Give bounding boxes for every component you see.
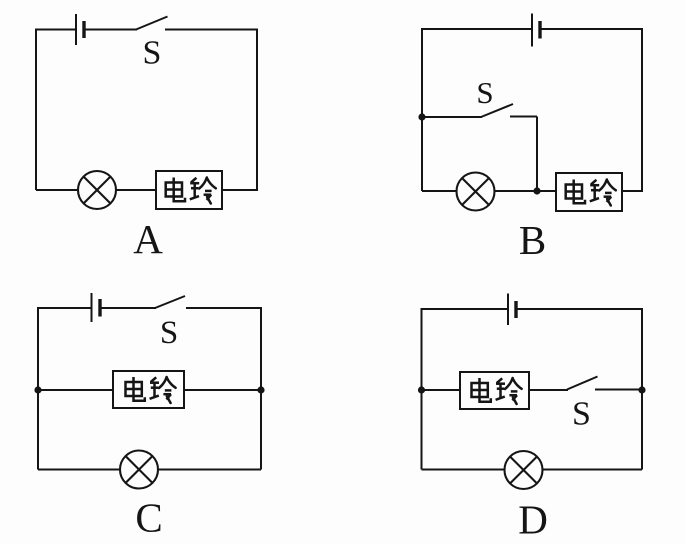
battery (circuit A) long plate <box>75 14 77 45</box>
wire: C middle branch right segment <box>184 389 261 391</box>
wire: A switch contact to top-right corner <box>165 29 257 31</box>
wire: B bottom-left to lamp <box>422 190 457 192</box>
wire: D left vertical <box>421 309 423 470</box>
wire: A lamp to bell <box>117 189 157 191</box>
electric bell box (circuit B) <box>556 173 622 211</box>
wire: D middle branch to bell <box>422 389 461 391</box>
wire: C battery to switch <box>101 307 156 309</box>
wire: D bottom-left to lamp <box>422 469 505 471</box>
wire: A bell to bottom-right corner <box>222 189 258 191</box>
wire: A top-left to battery <box>35 29 75 31</box>
node dot on B left vertical <box>418 113 425 120</box>
battery (circuit D) short plate <box>514 301 517 318</box>
wire: C lamp to bottom-right corner <box>158 469 261 471</box>
wire: B switch branch vertical down <box>536 117 538 192</box>
svg-text:B: B <box>519 217 546 263</box>
node dot on B bottom wire <box>533 187 540 194</box>
node dot on D left vertical (middle branch) <box>418 386 425 393</box>
wire: A bottom-left to lamp <box>36 189 78 191</box>
wire: B battery to top-right corner <box>541 28 642 30</box>
battery (circuit D) long plate <box>507 294 509 326</box>
wire: C middle branch left segment <box>38 389 113 391</box>
node dot on C right vertical (middle branch) <box>257 386 264 393</box>
node dot on C left vertical (middle branch) <box>34 386 41 393</box>
electric bell box (circuit C) <box>113 371 184 408</box>
wire: B lamp to bell <box>494 190 556 192</box>
wire: A battery to switch <box>85 29 137 31</box>
wire: D lamp to bottom-right corner <box>543 469 642 471</box>
wire: B switch branch horizontal <box>422 116 482 118</box>
svg-text:S: S <box>572 396 591 433</box>
svg-text:A: A <box>133 216 163 262</box>
wire: B left vertical <box>421 29 423 191</box>
wire: D right vertical <box>641 308 643 470</box>
wire: C bottom-left to lamp <box>38 469 120 471</box>
wire: A left vertical <box>35 30 37 191</box>
battery (circuit B) long plate <box>531 14 533 47</box>
battery (circuit C) long plate <box>91 293 93 322</box>
electric bell box (circuit D) <box>460 372 529 409</box>
electric bell label 电铃 (circuit A) <box>166 178 216 204</box>
switch S (circuit C) blade <box>155 296 185 308</box>
lamp (circuit D) <box>505 451 543 489</box>
wire: B top-left to battery <box>421 28 531 30</box>
lamp (circuit B) <box>457 173 495 211</box>
battery (circuit B) short plate <box>538 21 541 39</box>
lamp (circuit C) <box>120 451 158 489</box>
svg-text:S: S <box>143 35 162 72</box>
battery (circuit C) short plate <box>98 299 101 317</box>
wire: C right vertical <box>260 307 262 470</box>
battery (circuit A) short plate <box>82 21 85 38</box>
electric bell label 电铃 (circuit B) <box>566 180 616 206</box>
wire: B bell to bottom-right corner <box>622 190 643 192</box>
switch S (circuit A) blade <box>136 17 168 30</box>
switch S (circuit D) blade <box>567 377 598 390</box>
svg-text:S: S <box>476 75 493 110</box>
electric bell label 电铃 (circuit D) <box>472 378 522 404</box>
wire: C top-left to battery <box>37 307 91 309</box>
wire: C switch contact to top-right corner <box>186 307 261 309</box>
wire: D bell to switch <box>529 389 568 391</box>
electric bell box (circuit A) <box>156 171 222 209</box>
wire: D battery to top-right corner <box>517 308 642 310</box>
switch S (circuit B) blade <box>481 104 513 117</box>
svg-text:C: C <box>135 495 162 541</box>
lamp (circuit A) <box>78 171 116 209</box>
wire: B switch contact short horizontal <box>510 116 537 118</box>
wire: D top-left to battery <box>421 308 508 310</box>
wire: A right vertical <box>256 29 258 191</box>
wire: D switch contact to right node <box>595 389 642 391</box>
svg-text:S: S <box>160 315 178 351</box>
electric bell label 电铃 (circuit C) <box>126 377 176 403</box>
node dot on D right vertical (middle branch) <box>638 386 645 393</box>
wire: B right vertical <box>641 28 643 191</box>
svg-text:D: D <box>518 497 548 543</box>
wire: C left vertical <box>37 308 39 470</box>
